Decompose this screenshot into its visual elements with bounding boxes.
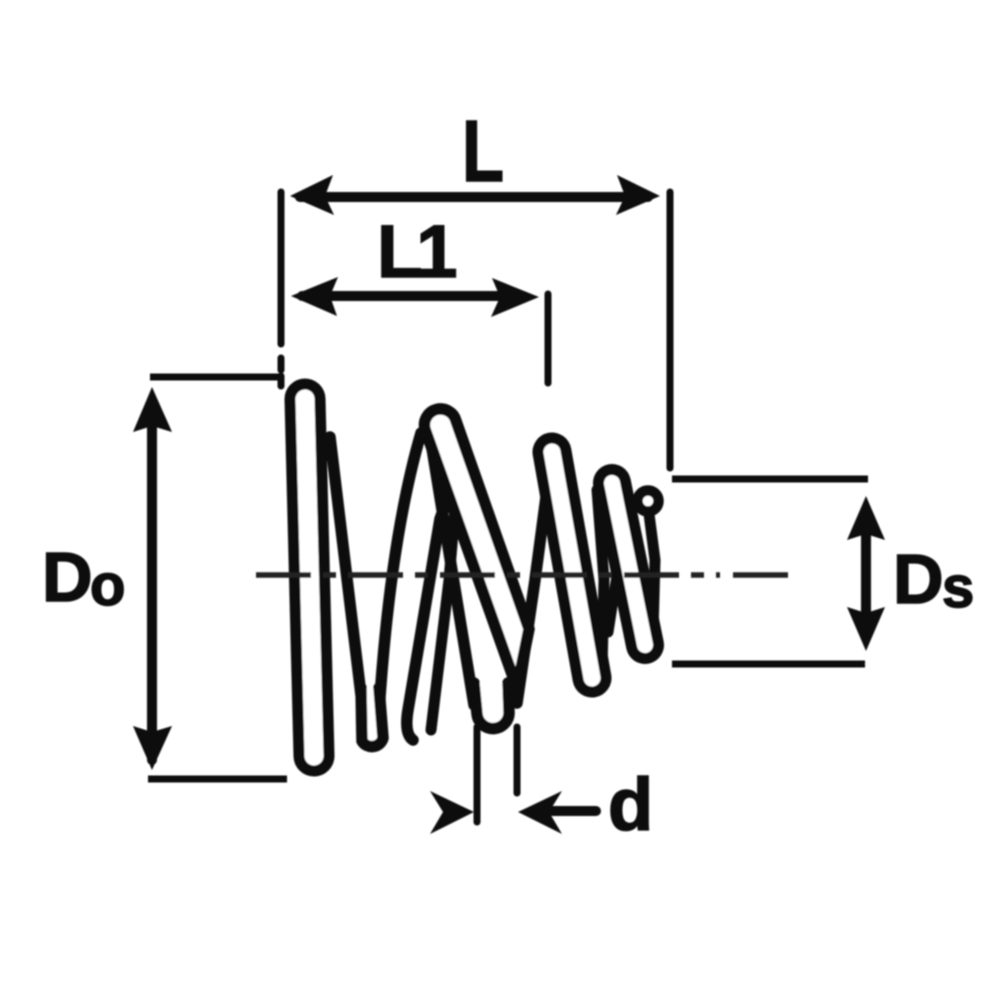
wire loop-2	[474, 683, 509, 729]
node L1-arrow-left	[291, 277, 338, 316]
node L-arrow-left	[290, 175, 334, 215]
wire d-extension-right	[514, 727, 521, 793]
wire Do-top-tick	[150, 374, 283, 381]
svg-text:s: s	[942, 555, 974, 620]
wire coil1-back-up	[379, 433, 421, 712]
svg-text:d: d	[608, 763, 653, 846]
spring body	[305, 399, 659, 756]
wire d-right-tail	[552, 806, 596, 816]
node d-arrow-right	[518, 791, 562, 834]
wire coil1-back-down	[330, 437, 361, 695]
coil 1 (outer)	[305, 399, 314, 756]
coil 1 core	[305, 399, 314, 756]
wire coil2-back-up	[517, 452, 552, 703]
node Do-arrow-top	[133, 387, 172, 432]
wire coil4-back-cross	[608, 505, 629, 632]
wire end-circle	[638, 491, 659, 512]
wire coil3-back-up	[597, 490, 604, 670]
svg-text:L1: L1	[377, 210, 456, 293]
wire coil3-back-cross	[558, 468, 567, 540]
wire loop-1	[361, 688, 383, 747]
node extension-L-right	[667, 192, 674, 468]
node extension-L-left	[278, 192, 285, 386]
wire L-dimension-shaft	[300, 192, 648, 202]
coil 2 tapered band	[424, 409, 529, 688]
arrowheads	[133, 175, 885, 834]
node Do-arrow-bottom	[133, 726, 172, 770]
svg-text:o: o	[90, 553, 125, 618]
centerline axis	[256, 572, 788, 578]
node extension-L1-right	[545, 294, 552, 383]
coil 3 (outer)	[552, 452, 592, 678]
wire coil2-front-left	[429, 430, 474, 705]
svg-text:D: D	[893, 540, 944, 618]
wire coil2-back-cross	[407, 458, 462, 740]
svg-text:L: L	[462, 103, 504, 200]
wire coil2-back-hidden	[431, 450, 460, 730]
node Ds-arrow-top	[847, 496, 885, 540]
wire Ds-dimension-shaft	[861, 510, 871, 635]
wire coil3-front-left	[540, 454, 580, 670]
wire Do-dimension-shaft	[147, 400, 157, 760]
wire L1-dimension-shaft	[302, 291, 522, 301]
wire Ds-top-tick	[672, 476, 868, 483]
node d-arrow-left	[430, 791, 474, 834]
wire Do-bottom-tick	[148, 776, 287, 783]
wire d-extension-left	[474, 727, 481, 822]
coil 4 core	[612, 483, 645, 645]
node L1-arrow-right	[491, 278, 539, 317]
node L-arrow-right	[616, 175, 660, 215]
coil 3 core	[552, 452, 592, 678]
wire Ds-bottom-tick	[672, 661, 865, 668]
coil 4 (outer)	[612, 483, 645, 645]
svg-text:D: D	[42, 538, 93, 616]
wire coil4-front-left	[601, 487, 632, 640]
node Ds-arrow-bottom	[847, 607, 885, 651]
wire coil4-back-up	[649, 514, 655, 632]
